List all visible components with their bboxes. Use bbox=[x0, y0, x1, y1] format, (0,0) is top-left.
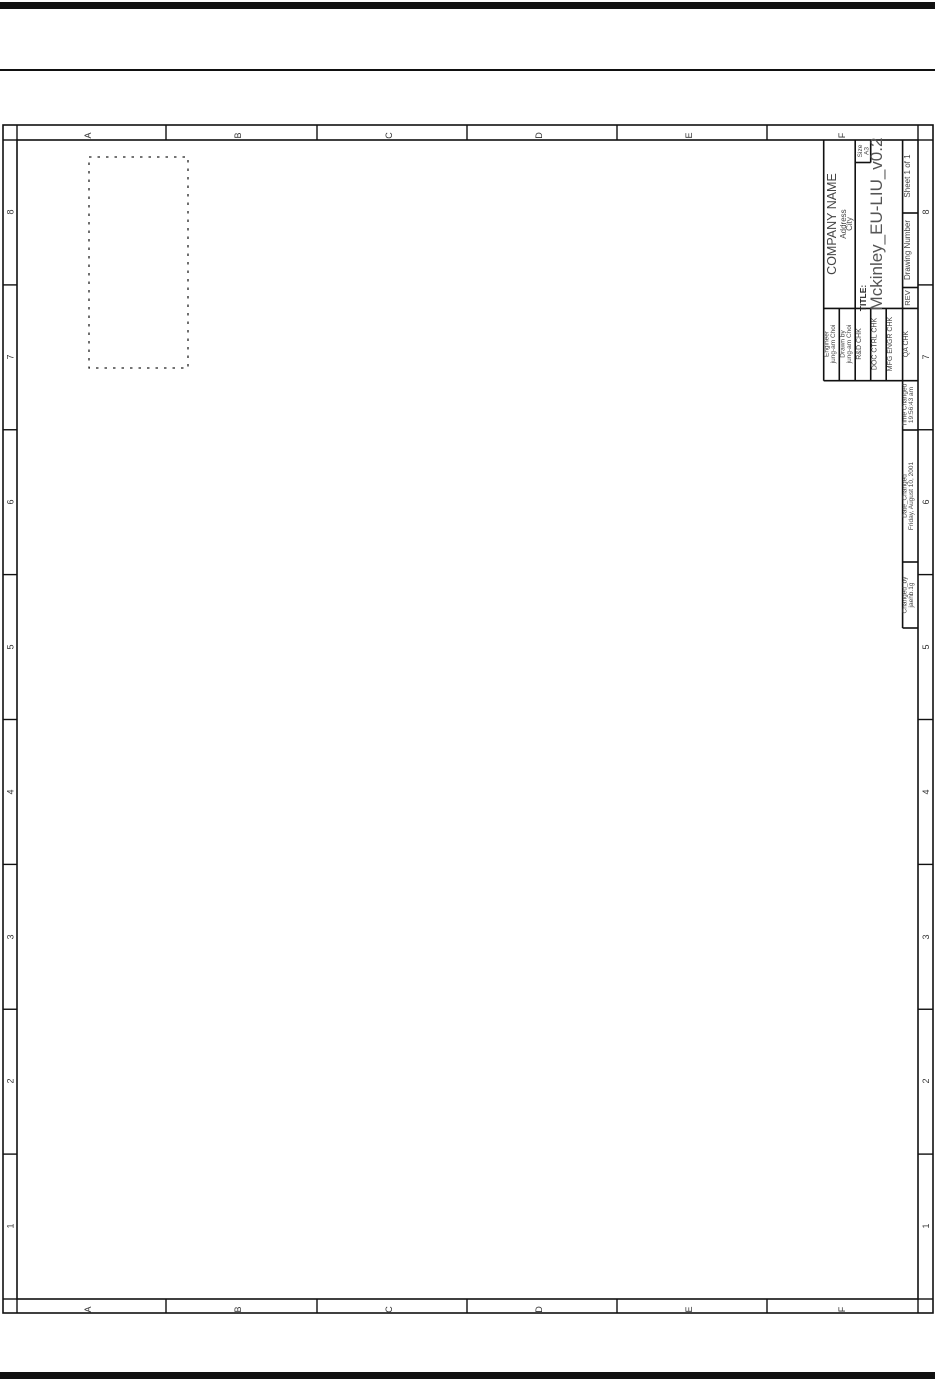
svg-text:jaehb.1g: jaehb.1g bbox=[908, 582, 915, 608]
svg-text:D: D bbox=[534, 1306, 544, 1313]
svg-text:Friday, August 10, 2001: Friday, August 10, 2001 bbox=[908, 462, 915, 531]
svg-text:Mckinley_EU-LIU_v0.2: Mckinley_EU-LIU_v0.2 bbox=[867, 138, 886, 311]
svg-text:8: 8 bbox=[6, 209, 16, 214]
svg-text:R&D CHK: R&D CHK bbox=[856, 328, 863, 360]
svg-text:jung-am Choi: jung-am Choi bbox=[830, 325, 837, 365]
svg-text:C: C bbox=[384, 132, 394, 139]
svg-text:6: 6 bbox=[6, 499, 16, 504]
svg-text:A: A bbox=[83, 1306, 93, 1312]
svg-text:2: 2 bbox=[6, 1078, 16, 1083]
svg-text:1: 1 bbox=[921, 1223, 931, 1228]
svg-text:7: 7 bbox=[921, 354, 931, 359]
svg-text:3: 3 bbox=[6, 934, 16, 939]
svg-text:2: 2 bbox=[921, 1078, 931, 1083]
svg-text:4: 4 bbox=[6, 789, 16, 794]
svg-text:City: City bbox=[845, 217, 854, 231]
svg-text:E: E bbox=[684, 1306, 694, 1312]
svg-text:Drawing Number: Drawing Number bbox=[903, 220, 912, 280]
svg-text:4: 4 bbox=[921, 789, 931, 794]
svg-text:5: 5 bbox=[921, 644, 931, 649]
svg-text:7: 7 bbox=[6, 354, 16, 359]
svg-text:F: F bbox=[837, 1306, 847, 1312]
svg-text:D: D bbox=[534, 132, 544, 139]
svg-text:QA CHK: QA CHK bbox=[903, 330, 910, 357]
svg-text:COMPANY NAME: COMPANY NAME bbox=[825, 173, 839, 275]
svg-text:MFG ENGR CHK: MFG ENGR CHK bbox=[887, 316, 894, 371]
svg-text:5: 5 bbox=[6, 644, 16, 649]
svg-text:B: B bbox=[233, 1306, 243, 1312]
svg-text:A: A bbox=[83, 132, 93, 138]
svg-text:Sheet 1 of 1: Sheet 1 of 1 bbox=[903, 154, 912, 198]
svg-text:C: C bbox=[384, 1306, 394, 1313]
svg-text:jung-am Choi: jung-am Choi bbox=[846, 325, 853, 365]
svg-text:8: 8 bbox=[921, 209, 931, 214]
svg-text:REV: REV bbox=[903, 290, 912, 305]
svg-text:1: 1 bbox=[6, 1223, 16, 1228]
svg-text:6: 6 bbox=[921, 499, 931, 504]
svg-text:F: F bbox=[837, 132, 847, 138]
svg-text:E: E bbox=[684, 132, 694, 138]
svg-text:B: B bbox=[233, 132, 243, 138]
svg-text:DOC CTRL CHK: DOC CTRL CHK bbox=[872, 318, 879, 371]
svg-text:19:56:43 am: 19:56:43 am bbox=[908, 387, 915, 423]
svg-text:3: 3 bbox=[921, 934, 931, 939]
